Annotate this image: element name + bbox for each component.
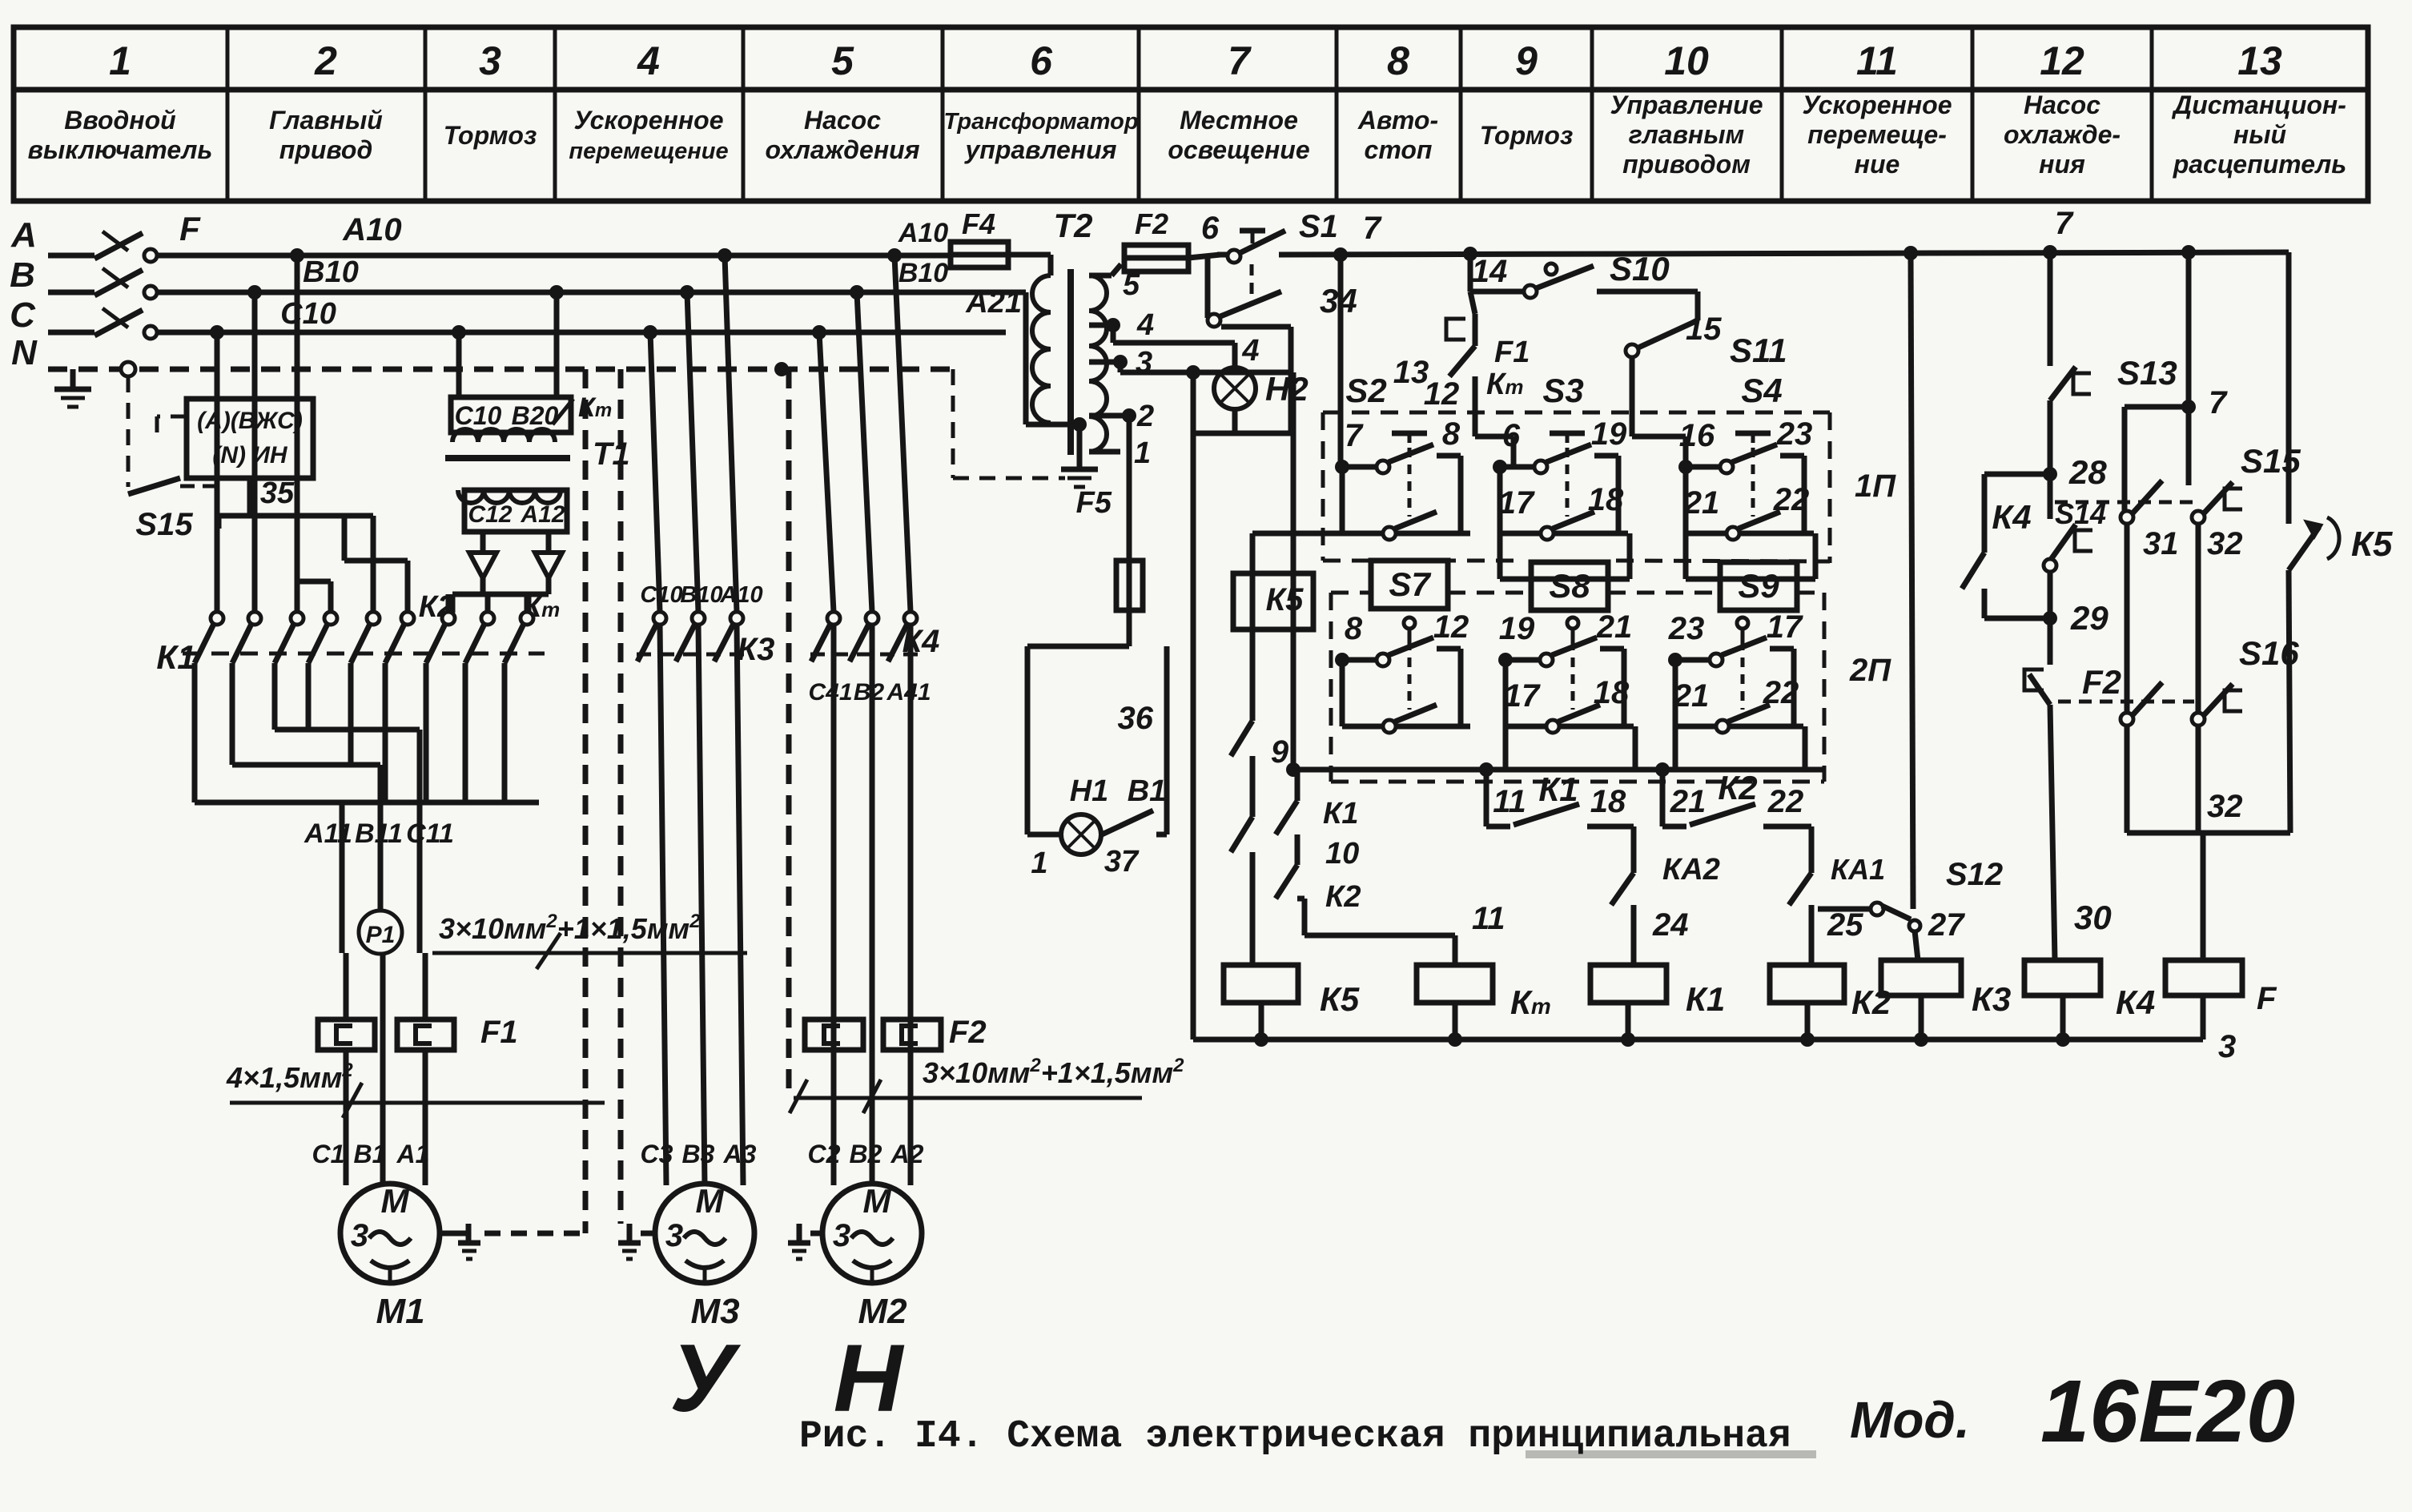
svg-text:Насос: Насос xyxy=(2024,90,2100,119)
svg-text:27: 27 xyxy=(1928,907,1965,943)
svg-text:C: C xyxy=(10,296,36,335)
contact K2 aux (21-22) xyxy=(1662,769,1811,826)
thermal relay F1 contact and Kт contact xyxy=(1393,292,1530,467)
transformer T2 primary xyxy=(965,255,1087,448)
svg-text:К4: К4 xyxy=(1992,498,2031,536)
motor M2 xyxy=(822,1182,922,1331)
svg-text:К2: К2 xyxy=(1718,769,1757,806)
fuse F1 pair xyxy=(318,1015,518,1050)
svg-text:КА1: КА1 xyxy=(1831,853,1885,886)
node 9 bus xyxy=(1271,734,1824,777)
svg-text:К1: К1 xyxy=(1538,770,1578,808)
designation box S9 xyxy=(1720,562,1797,610)
svg-text:8: 8 xyxy=(1345,611,1363,646)
coil K5 xyxy=(1224,965,1360,1039)
dashed box 1П xyxy=(1323,412,1896,563)
svg-text:ние: ние xyxy=(1855,150,1900,179)
dashed neutral drop 3 xyxy=(786,369,792,1098)
contact ladder K1 10 K2 xyxy=(1276,770,1361,935)
handwritten У mark xyxy=(669,1325,741,1432)
svg-text:F2: F2 xyxy=(949,1015,987,1050)
svg-text:С12: С12 xyxy=(468,501,512,528)
svg-text:Ускоренное: Ускоренное xyxy=(1803,90,1952,119)
wire feeds from rails to contact bank xyxy=(217,255,527,613)
svg-text:Местное: Местное xyxy=(1180,106,1298,135)
node N label xyxy=(11,333,38,372)
svg-text:31: 31 xyxy=(2143,526,2179,561)
figure caption xyxy=(799,1415,1791,1458)
svg-text:32: 32 xyxy=(2207,526,2243,561)
svg-text:(N) ИН: (N) ИН xyxy=(212,442,288,468)
wire rail C10 xyxy=(157,297,1006,340)
dashed N to T2 ground xyxy=(953,369,1065,478)
svg-text:Т2: Т2 xyxy=(1053,207,1092,244)
frame bonding dashed wire xyxy=(484,1231,585,1237)
svg-text:Н2: Н2 xyxy=(1265,370,1309,408)
svg-text:S1: S1 xyxy=(1299,209,1338,244)
main control rail 7 xyxy=(1217,206,2289,261)
svg-text:М1: М1 xyxy=(376,1292,424,1331)
svg-text:19: 19 xyxy=(1499,611,1535,646)
svg-text:К5: К5 xyxy=(1320,980,1360,1018)
transformer T2 label xyxy=(1053,207,1092,244)
wire node 11 to Kт coil xyxy=(1304,901,1505,965)
svg-text:S2: S2 xyxy=(1345,372,1386,409)
contactor K4 contacts xyxy=(810,612,939,661)
svg-text:приводом: приводом xyxy=(1622,150,1751,179)
svg-text:А21: А21 xyxy=(965,286,1022,320)
cable label 3x10мм2+1x1,5мм2 right xyxy=(790,1055,1184,1113)
svg-text:11: 11 xyxy=(1472,901,1505,936)
main switch F (3-pole knife switch) xyxy=(48,210,201,339)
svg-text:В11: В11 xyxy=(355,818,403,849)
svg-text:Управление: Управление xyxy=(1610,90,1763,119)
svg-text:главным: главным xyxy=(1629,120,1745,149)
svg-text:21: 21 xyxy=(1670,784,1706,819)
svg-text:22: 22 xyxy=(1763,675,1799,710)
svg-text:17: 17 xyxy=(1498,485,1535,521)
svg-text:М: М xyxy=(863,1182,892,1220)
svg-text:12: 12 xyxy=(1433,609,1469,645)
svg-text:Насос: Насос xyxy=(804,106,881,135)
svg-text:5: 5 xyxy=(831,38,854,83)
svg-text:охлажде-: охлажде- xyxy=(2004,120,2121,149)
svg-text:охлаждения: охлаждения xyxy=(765,135,919,164)
header column labels xyxy=(28,90,2347,179)
svg-text:12: 12 xyxy=(2040,38,2084,83)
svg-text:S4: S4 xyxy=(1741,372,1782,409)
svg-text:36: 36 xyxy=(1118,701,1154,736)
switch S11 xyxy=(1626,292,1787,467)
svg-text:9: 9 xyxy=(1271,734,1289,770)
svg-text:Тормоз: Тормоз xyxy=(444,121,537,150)
svg-text:35: 35 xyxy=(260,477,295,510)
wire rail N dashed xyxy=(48,362,953,376)
transformer T1 secondary box С12 А12 xyxy=(458,490,567,532)
svg-text:А10: А10 xyxy=(719,582,762,608)
node 35 xyxy=(250,477,295,516)
lamp H2 xyxy=(1214,368,1309,409)
wires K4 to motor M2 xyxy=(834,625,911,1185)
switch S2 label xyxy=(1345,372,1386,409)
svg-text:выключатель: выключатель xyxy=(28,135,213,164)
switch S4 contacts 16-23 21-22 xyxy=(1678,416,1815,579)
svg-text:6: 6 xyxy=(1201,211,1220,246)
contactor Kт main contact xyxy=(505,590,560,663)
svg-text:7: 7 xyxy=(1363,211,1382,246)
coil K3 xyxy=(1881,960,2011,1039)
svg-text:7: 7 xyxy=(1345,418,1364,453)
svg-text:30: 30 xyxy=(2074,899,2112,936)
svg-text:F4: F4 xyxy=(962,207,995,240)
svg-text:15: 15 xyxy=(1686,312,1722,347)
svg-text:К2: К2 xyxy=(1325,880,1361,914)
svg-text:8: 8 xyxy=(1442,416,1461,452)
svg-text:F5: F5 xyxy=(1076,486,1112,520)
switch S3 contacts 6-19 17-18 xyxy=(1493,416,1630,579)
coil K2 xyxy=(1770,965,1891,1039)
svg-text:17: 17 xyxy=(1504,678,1541,714)
svg-text:1П: 1П xyxy=(1855,468,1896,504)
node 28 xyxy=(2043,453,2107,491)
svg-text:19: 19 xyxy=(1591,416,1627,452)
contactor K3 contacts xyxy=(637,582,774,667)
svg-text:16Е20: 16Е20 xyxy=(2040,1362,2295,1461)
svg-text:К4: К4 xyxy=(2116,983,2155,1021)
node 32 xyxy=(2207,526,2243,561)
switch S12 and node 27 xyxy=(1818,857,2003,943)
svg-text:F: F xyxy=(179,210,201,247)
terminal labels С41 В2 А41 xyxy=(808,679,931,706)
svg-text:A10: A10 xyxy=(342,212,401,247)
contact K5-1 xyxy=(1231,721,1252,817)
svg-text:К2: К2 xyxy=(1851,983,1891,1021)
handwritten Н mark xyxy=(834,1325,905,1432)
wires to motor M1 xyxy=(346,953,425,1185)
contactor K2 main contacts xyxy=(419,590,494,663)
contact K4 aux parallel xyxy=(1962,474,2050,618)
svg-text:S15: S15 xyxy=(2241,442,2301,480)
left control vertical wire 1 xyxy=(1191,372,1196,1039)
wires K3 to motor M3 xyxy=(660,625,743,1185)
svg-text:Р1: Р1 xyxy=(366,922,396,948)
wire box bottom to coil F xyxy=(2127,833,2290,960)
wire rail to S2 xyxy=(1333,247,1348,467)
relay box ИН (voltage relay) xyxy=(187,399,313,478)
contact K5 arrow (remote trip) xyxy=(2289,252,2393,833)
model number 16Е20 xyxy=(2040,1362,2295,1461)
contactor K1 main contacts xyxy=(156,612,414,676)
svg-text:16: 16 xyxy=(1679,418,1715,453)
svg-text:С41: С41 xyxy=(808,679,852,706)
coil K4 xyxy=(2024,960,2155,1039)
svg-text:стоп: стоп xyxy=(1365,135,1433,164)
svg-text:управления: управления xyxy=(963,135,1116,164)
svg-text:КА2: КА2 xyxy=(1662,853,1720,887)
ground at N rail xyxy=(54,369,91,407)
svg-text:2: 2 xyxy=(1136,400,1154,433)
svg-text:37: 37 xyxy=(1104,845,1140,879)
svg-text:В3: В3 xyxy=(682,1140,715,1168)
svg-text:B10: B10 xyxy=(303,255,359,289)
svg-text:9: 9 xyxy=(1515,38,1538,83)
svg-text:10: 10 xyxy=(1325,837,1359,871)
svg-text:6: 6 xyxy=(1030,38,1053,83)
svg-text:Рис. I4. Схема электрическая п: Рис. I4. Схема электрическая принципиаль… xyxy=(799,1415,1791,1458)
svg-text:S15: S15 xyxy=(135,507,193,542)
thermal contact F2 xyxy=(2024,618,2121,960)
svg-text:А2: А2 xyxy=(890,1140,924,1168)
switch S1 xyxy=(1228,209,1338,306)
svg-text:М: М xyxy=(696,1182,725,1220)
dashed neutral drop 2 xyxy=(618,369,624,1224)
svg-text:С2: С2 xyxy=(808,1140,841,1168)
svg-text:расцепитель: расцепитель xyxy=(2173,150,2347,179)
header column numbers 1-13 xyxy=(109,38,2282,83)
header table frame xyxy=(14,27,2368,201)
switch S3 label xyxy=(1542,372,1583,409)
svg-text:21: 21 xyxy=(1596,609,1633,645)
svg-text:Ускоренное: Ускоренное xyxy=(574,106,724,135)
terminal labels C1 B1 A1 xyxy=(312,1140,430,1168)
dashed box 2П xyxy=(1331,593,1891,782)
svg-text:8: 8 xyxy=(1387,38,1409,83)
svg-text:У: У xyxy=(669,1325,741,1432)
fuse F4 on A10 xyxy=(951,207,1008,267)
svg-text:F1: F1 xyxy=(1494,336,1530,369)
svg-text:3: 3 xyxy=(479,38,501,83)
svg-text:7: 7 xyxy=(2055,206,2074,241)
svg-text:В2: В2 xyxy=(854,679,885,706)
svg-text:4: 4 xyxy=(1136,308,1154,342)
svg-text:1: 1 xyxy=(1134,436,1151,470)
svg-text:А10: А10 xyxy=(898,218,948,248)
switch S10 xyxy=(1524,250,1698,298)
svg-text:3: 3 xyxy=(665,1218,683,1253)
svg-text:S11: S11 xyxy=(1730,332,1787,369)
designation box S7 xyxy=(1371,561,1448,609)
svg-text:Трансформатор: Трансформатор xyxy=(943,109,1138,135)
contact KA2 and node 24 xyxy=(1611,826,1720,965)
svg-text:К5: К5 xyxy=(1266,582,1304,617)
wire labels А11 В11 С11 xyxy=(304,818,454,849)
wires rails to K3 xyxy=(650,255,737,612)
svg-text:23: 23 xyxy=(1668,611,1705,646)
contact KA1 and node 25 xyxy=(1789,826,1885,965)
svg-text:18: 18 xyxy=(1594,675,1630,710)
svg-text:А3: А3 xyxy=(723,1140,757,1168)
svg-text:3×10мм2+1×1,5мм2: 3×10мм2+1×1,5мм2 xyxy=(923,1055,1184,1089)
wire rail to K3 coil via S12 column xyxy=(1911,253,1918,960)
svg-text:S10: S10 xyxy=(1610,250,1670,288)
switch S7 contacts 8-12 xyxy=(1335,609,1470,733)
svg-text:11: 11 xyxy=(1493,784,1526,819)
svg-text:Вводной: Вводной xyxy=(64,106,175,135)
svg-text:Главный: Главный xyxy=(269,106,383,135)
svg-text:3: 3 xyxy=(833,1218,850,1253)
svg-text:F1: F1 xyxy=(480,1015,518,1050)
switch S15 left xyxy=(128,478,215,542)
svg-text:14: 14 xyxy=(1472,254,1508,289)
svg-text:К1: К1 xyxy=(1686,980,1725,1018)
svg-text:F2: F2 xyxy=(1135,207,1168,240)
svg-text:Авто-: Авто- xyxy=(1357,106,1438,135)
svg-text:B: B xyxy=(10,255,35,295)
svg-text:4: 4 xyxy=(1241,334,1259,368)
coil F xyxy=(2165,960,2277,1039)
wire N to relay dashed xyxy=(128,376,187,487)
switch S2 contacts 7-8 xyxy=(1335,416,1470,540)
switch S8 contacts 19-21 17-18 xyxy=(1498,609,1635,770)
svg-text:32: 32 xyxy=(2207,789,2243,824)
svg-text:S9: S9 xyxy=(1738,567,1779,605)
svg-text:17: 17 xyxy=(1767,609,1803,645)
vertical to 9 bus xyxy=(1291,372,1296,770)
svg-text:В1: В1 xyxy=(1128,774,1167,808)
svg-text:С1: С1 xyxy=(312,1140,345,1168)
rectifier diodes under T1 xyxy=(452,532,562,613)
wires rails to K4 xyxy=(819,255,911,612)
switch S15 two-pole xyxy=(2055,407,2301,524)
svg-text:В10: В10 xyxy=(680,582,722,608)
svg-text:F2: F2 xyxy=(2082,663,2121,701)
svg-text:3: 3 xyxy=(2218,1029,2236,1064)
switch S14 xyxy=(2044,474,2106,618)
svg-text:4×1,5мм2: 4×1,5мм2 xyxy=(226,1060,353,1094)
svg-text:1: 1 xyxy=(109,38,131,83)
node 30 xyxy=(2074,899,2112,936)
svg-text:S7: S7 xyxy=(1389,565,1431,603)
svg-text:ный: ный xyxy=(2233,120,2286,149)
contact Kт tick at T1 xyxy=(553,392,612,424)
svg-text:4: 4 xyxy=(637,38,660,83)
wire H2 return xyxy=(1193,409,1291,433)
svg-text:С11: С11 xyxy=(406,818,454,849)
svg-text:3: 3 xyxy=(351,1218,368,1253)
transformer T1 primary labels xyxy=(455,401,559,430)
svg-text:7: 7 xyxy=(2209,385,2228,420)
svg-text:перемещение: перемещение xyxy=(569,139,728,164)
svg-text:C10: C10 xyxy=(280,297,336,331)
cable label 3x10мм2+1x1,5мм2 left xyxy=(432,911,747,969)
svg-text:7: 7 xyxy=(1228,38,1252,83)
svg-text:22: 22 xyxy=(1767,784,1804,819)
svg-text:2: 2 xyxy=(314,38,337,83)
svg-text:S8: S8 xyxy=(1549,567,1590,605)
svg-text:А12: А12 xyxy=(520,501,565,528)
svg-text:22: 22 xyxy=(1773,482,1810,517)
svg-text:N: N xyxy=(11,333,38,372)
wire S2 row to K5 branch xyxy=(1252,533,1342,721)
transformer T2 core xyxy=(1067,269,1074,455)
svg-text:2П: 2П xyxy=(1849,653,1891,688)
ground at motor M2 xyxy=(788,1224,822,1259)
node 6 label xyxy=(1201,211,1220,246)
svg-text:Дистанцион-: Дистанцион- xyxy=(2171,90,2346,119)
motor M3 xyxy=(655,1182,754,1331)
fuse F5 xyxy=(1076,416,1143,646)
wire node 3 to left vertical xyxy=(1120,362,1293,380)
switch B1 at H1 xyxy=(1031,810,1153,880)
node B label xyxy=(10,255,35,295)
node 7 right xyxy=(2125,252,2228,420)
svg-text:S3: S3 xyxy=(1542,372,1583,409)
svg-text:21: 21 xyxy=(1673,678,1710,714)
svg-text:М: М xyxy=(381,1182,410,1220)
ground under T2 xyxy=(1061,448,1098,487)
switch S9 contacts 23-17 21-22 xyxy=(1668,609,1805,770)
model label Мод. xyxy=(1850,1391,1970,1449)
svg-text:A: A xyxy=(10,215,37,255)
switch 34 xyxy=(1208,255,1357,433)
switch S13 xyxy=(2050,252,2177,471)
svg-text:К3: К3 xyxy=(1972,980,2011,1018)
contact K5-2 xyxy=(1231,817,1252,965)
svg-text:S13: S13 xyxy=(2117,354,2177,392)
svg-text:К1: К1 xyxy=(1323,797,1359,830)
coil K1 xyxy=(1590,965,1725,1039)
switch S4 label xyxy=(1741,372,1782,409)
svg-text:Мод.: Мод. xyxy=(1850,1391,1970,1449)
svg-text:(А)(ВЖС): (А)(ВЖС) xyxy=(197,408,303,434)
svg-text:23: 23 xyxy=(1776,416,1813,452)
svg-text:18: 18 xyxy=(1588,482,1624,517)
svg-text:К1: К1 xyxy=(156,638,195,676)
designation box К5 xyxy=(1233,573,1313,629)
svg-text:Т1: Т1 xyxy=(593,436,630,472)
svg-text:перемеще-: перемеще- xyxy=(1807,120,1947,149)
dashed neutral drop 1 xyxy=(583,369,589,1233)
svg-text:привод: привод xyxy=(279,135,373,164)
cable label 4x1,5мм2 xyxy=(226,1060,605,1118)
lamp H1 loop xyxy=(1027,646,1167,834)
switch S16 two-pole xyxy=(2058,524,2299,833)
svg-text:К3: К3 xyxy=(738,632,775,667)
svg-text:Н1: Н1 xyxy=(1070,774,1109,808)
svg-text:S12: S12 xyxy=(1946,857,2003,892)
wire A10 label right xyxy=(898,218,1051,288)
svg-text:освещение: освещение xyxy=(1168,135,1309,164)
svg-text:18: 18 xyxy=(1590,784,1626,819)
common bottom bus 3 xyxy=(1193,1029,2236,1064)
svg-text:13: 13 xyxy=(2237,38,2282,83)
wire rail B10 xyxy=(157,255,1026,300)
ground at motor M3 xyxy=(618,1224,655,1259)
svg-text:В2: В2 xyxy=(850,1140,882,1168)
lamp H2 feed node 4 xyxy=(1113,325,1260,368)
fuse F2 control xyxy=(1112,207,1220,275)
svg-text:А11: А11 xyxy=(304,818,352,849)
wire rail A10 xyxy=(157,212,951,263)
svg-text:К5: К5 xyxy=(2351,525,2393,564)
svg-text:В20: В20 xyxy=(512,401,559,430)
lamp H1 xyxy=(1061,774,1166,855)
node A label xyxy=(10,215,37,255)
node C label xyxy=(10,296,36,335)
svg-text:25: 25 xyxy=(1827,907,1863,943)
svg-text:С10: С10 xyxy=(455,401,502,430)
weave below K1 bank to wires А11 В11 С11 xyxy=(195,663,539,953)
ground at motor M1 xyxy=(440,1224,480,1259)
terminal labels C2 B2 A2 xyxy=(808,1140,924,1168)
svg-text:12: 12 xyxy=(1424,376,1460,412)
contact K1 aux (11-18) xyxy=(1486,770,1634,826)
fuse F2 pair at M2 xyxy=(805,1015,987,1050)
svg-text:21: 21 xyxy=(1683,485,1720,521)
svg-text:6: 6 xyxy=(1502,418,1521,453)
svg-text:10: 10 xyxy=(1664,38,1709,83)
node 31 xyxy=(2143,526,2179,561)
